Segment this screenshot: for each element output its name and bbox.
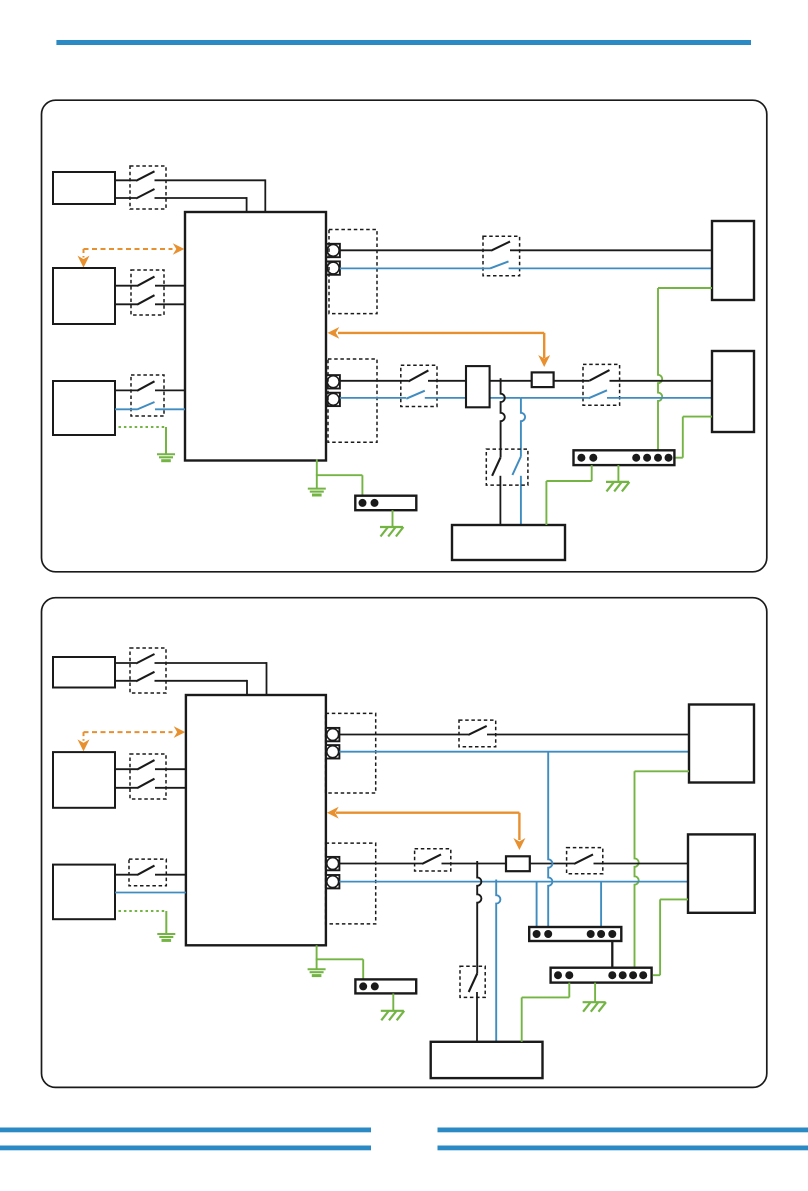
- energy meter M1: [532, 372, 554, 387]
- switch blade S3 blue: [589, 390, 608, 398]
- green dotted earth wire from C1: [119, 426, 167, 428]
- wire A1 line2: [115, 197, 136, 199]
- wire C2 black: [115, 874, 137, 876]
- switch blade S1 black: [491, 242, 510, 251]
- wire mid black after T1: [490, 380, 532, 382]
- earth terminal block TB1: [355, 496, 416, 511]
- panel 2 frame: [42, 598, 767, 1088]
- wire A2 line2: [115, 680, 136, 682]
- terminal group box (dashed) top2: [326, 713, 376, 793]
- black link NB2 to GB2: [611, 941, 613, 968]
- wire B1 line1: [115, 285, 137, 287]
- genset breaker 2 (dashed): [460, 966, 485, 997]
- blue feeder drop2 to genset: [496, 880, 500, 1042]
- genset switch blade black: [492, 457, 501, 476]
- TB2 earth stem: [392, 993, 394, 1010]
- wire mid black: [340, 380, 409, 382]
- wire top black to grid: [340, 249, 491, 251]
- green wire GB1 to genset: [591, 465, 593, 481]
- header rule: [56, 40, 751, 45]
- breaker S3 (dashed): [583, 364, 620, 405]
- breaker S1 (dashed): [483, 236, 520, 275]
- black feeder drop to genset: [501, 378, 505, 457]
- breaker CB4 (dashed): [130, 648, 166, 693]
- wire B1 line2: [115, 303, 137, 305]
- U1 output terminal L1: [327, 244, 340, 257]
- source box A2: [53, 657, 115, 688]
- wire A1 line1: [115, 179, 136, 181]
- earth ground under U1: [308, 489, 326, 495]
- switch blade CB5b: [137, 779, 155, 789]
- wire top2 black to grid: [339, 734, 468, 736]
- blue feeder drop lower: [520, 476, 522, 525]
- ground bar GB1: [574, 450, 675, 465]
- source box C2: [53, 865, 115, 920]
- wire B2 line1: [115, 768, 137, 770]
- U1 chassis earth stem: [316, 460, 318, 476]
- orange CT sense arrow line: [338, 332, 544, 334]
- blue feeder drop to genset: [521, 398, 525, 457]
- breaker CB1 (dashed): [130, 166, 166, 209]
- source box A1: [53, 172, 115, 204]
- orange dashed comms arrow to U2: [84, 731, 173, 733]
- breaker CB2 (dashed): [131, 270, 164, 315]
- breaker S2 (dashed): [401, 365, 437, 406]
- wire top blue to grid: [340, 267, 490, 269]
- breaker CB6 (dashed): [129, 859, 166, 886]
- switch blade CB1b: [136, 189, 155, 199]
- U1 output terminal N1: [327, 261, 340, 274]
- source box B1: [53, 268, 115, 324]
- inverter U1: [185, 212, 326, 461]
- breaker CB3 (dashed): [131, 375, 164, 416]
- slash earth under GB1: [606, 482, 629, 492]
- slash earth under GB2: [583, 1002, 606, 1012]
- source box C1: [53, 381, 115, 435]
- U2 chassis earth stem: [316, 945, 318, 959]
- switch blade CB3a: [137, 381, 155, 391]
- black feeder drop lower: [499, 476, 501, 525]
- neutral link blue drop b from top: [548, 752, 552, 927]
- switch blade CB1a: [136, 171, 155, 181]
- wire C1 black: [115, 389, 137, 391]
- wire mid2 black after M2: [530, 863, 574, 865]
- breaker S4 (dashed): [459, 720, 496, 747]
- grid box 2: [689, 705, 754, 783]
- breaker CB5 (dashed): [130, 754, 166, 799]
- switch blade S1 blue: [490, 261, 509, 268]
- black feeder drop2 to genset: [477, 861, 481, 974]
- green earth wire load to ground bar: [683, 416, 712, 418]
- isolator box T1: [466, 366, 490, 407]
- terminal group box (dashed) top: [329, 230, 377, 314]
- source box B2: [53, 752, 115, 808]
- terminal group box (dashed) mid2: [326, 843, 376, 924]
- switch blade CB2b: [137, 295, 155, 305]
- neutral terminal bar NB2: [529, 927, 621, 941]
- orange dashed comms arrow to U1: [84, 248, 173, 250]
- wire mid2 black: [339, 863, 422, 865]
- wire top2 blue to grid: [339, 751, 689, 753]
- earth ground under U2: [308, 969, 326, 975]
- neutral link blue drop a: [536, 882, 538, 927]
- wire B2 line2: [115, 787, 137, 789]
- switch blade S2 blue: [406, 391, 425, 399]
- energy meter M2: [506, 856, 530, 871]
- U2 output terminal N1: [326, 745, 339, 758]
- U2 output terminal L1: [326, 728, 339, 741]
- green dotted earth wire from C2: [119, 910, 167, 912]
- orange CT sense arrow 2: [336, 812, 519, 814]
- wire mid black after M1: [554, 380, 590, 382]
- load box 1: [712, 351, 754, 432]
- wire C1 blue: [115, 408, 137, 410]
- green earth wire grid to ground bar: [658, 287, 712, 289]
- U2 output terminal L2: [326, 857, 339, 870]
- slash earth under TB2: [381, 1011, 404, 1021]
- black feeder drop2 lower: [476, 992, 478, 1042]
- ground bar GB2: [551, 968, 652, 983]
- footer rule lower: [0, 1146, 371, 1151]
- wire C2 blue: [115, 892, 186, 894]
- GB1 earth stem: [617, 465, 619, 482]
- slash earth under TB1: [380, 527, 403, 537]
- switch blade CB3b blue: [137, 402, 155, 410]
- switch blade CB6: [137, 866, 155, 876]
- earth terminal block TB2: [355, 979, 416, 993]
- wire mid blue: [340, 397, 406, 399]
- breaker S6 (dashed): [567, 848, 603, 874]
- earth ground for C1: [157, 454, 175, 460]
- U2 output terminal N2: [326, 875, 339, 888]
- genset box 1: [452, 525, 565, 560]
- earth ground for C2: [157, 934, 175, 940]
- terminal group box (dashed) mid: [328, 359, 377, 442]
- genset switch blade blue: [512, 457, 521, 476]
- wire mid blue after junction: [521, 397, 589, 399]
- breaker S5 (dashed): [415, 849, 451, 871]
- panel 1 frame: [42, 100, 767, 572]
- genset switch blade black 2: [469, 974, 478, 993]
- switch blade S5 black: [422, 854, 441, 864]
- switch blade S4 black: [468, 726, 487, 735]
- switch blade CB4b: [136, 672, 155, 682]
- green wire GB2 to genset2: [568, 983, 570, 998]
- load box 2: [688, 834, 755, 912]
- footer rule upper: [0, 1128, 371, 1133]
- orange dashed drop to box B2: [83, 732, 85, 741]
- switch blade CB4a: [136, 654, 155, 664]
- GB2 earth stem: [594, 983, 596, 1002]
- orange dashed drop to box B1: [83, 249, 85, 258]
- wire A2 line1: [115, 662, 136, 664]
- grid box 1: [712, 221, 754, 300]
- wire mid2 blue: [339, 881, 688, 883]
- inverter U2: [186, 695, 326, 945]
- neutral link blue drop c: [600, 882, 602, 927]
- U1 output terminal N2: [327, 393, 340, 406]
- switch blade S2 black: [408, 370, 428, 381]
- genset box 2: [431, 1042, 543, 1078]
- green earth wire grid2 to ground bar2: [635, 770, 690, 772]
- TB1 earth stem: [392, 510, 394, 527]
- genset breaker (dashed): [486, 449, 528, 485]
- green earth wire load2 to ground bar2: [660, 898, 688, 900]
- switch blade CB2a: [137, 277, 155, 287]
- switch blade CB5a: [137, 760, 155, 770]
- switch blade S3 black: [590, 370, 610, 381]
- switch blade S6 black: [574, 854, 593, 864]
- U1 output terminal L2: [327, 375, 340, 388]
